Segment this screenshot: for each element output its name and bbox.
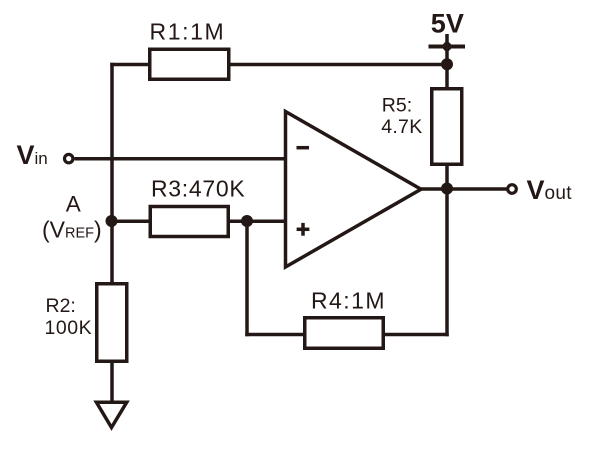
svg-text:R1:1M: R1:1M — [150, 19, 226, 45]
wire: left vertical from R1 corner down to R2 top — [110, 63, 114, 283]
resistor R2 — [97, 284, 127, 362]
wire: R2 bottom to ground — [110, 360, 114, 402]
junction dot: output node — [441, 183, 453, 195]
node A junction dot — [106, 215, 118, 227]
svg-text:4.7K: 4.7K — [381, 116, 422, 138]
svg-text:Vin: Vin — [17, 140, 48, 170]
resistor R1 — [150, 49, 229, 79]
wire: R5 bottom to output node — [445, 163, 449, 189]
svg-text:100K: 100K — [45, 317, 93, 339]
wire: feedback left vertical — [245, 221, 249, 336]
5V supply symbol: stem wire — [445, 34, 449, 88]
svg-text:Vout: Vout — [527, 175, 573, 205]
svg-text:R2:: R2: — [46, 295, 76, 317]
wire: node A to R3 — [112, 219, 151, 223]
resistor R3 — [150, 207, 228, 237]
terminal: Vout open circle — [508, 185, 517, 194]
5V supply symbol: bar — [429, 45, 466, 49]
wire: R1 left lead — [110, 63, 150, 67]
resistor R5 — [432, 89, 462, 165]
wire: output node to Vout terminal — [421, 187, 507, 191]
5V supply symbol: diamond — [441, 40, 454, 53]
svg-text:R4:1M: R4:1M — [311, 288, 386, 314]
resistor R4 — [305, 318, 384, 349]
op-amp non-inverting input symbol (plus) — [297, 228, 310, 232]
junction dot: R3 / feedback node — [241, 215, 253, 227]
op-amp inverting input symbol (minus) — [297, 146, 310, 150]
op-amp U1 — [286, 112, 422, 268]
wire: Vin to op-amp inverting input — [75, 157, 286, 161]
wire: output node down to feedback — [445, 189, 449, 336]
wire: feedback bottom right lead — [383, 333, 449, 337]
svg-text:R5:: R5: — [382, 95, 412, 117]
wire: R1 right lead to 5V junction — [228, 63, 447, 67]
wire: R3 to op-amp non-inverting input — [228, 219, 286, 223]
svg-text:R3:470K: R3:470K — [151, 176, 245, 202]
wire: feedback bottom left lead — [245, 333, 305, 337]
svg-text:A: A — [66, 192, 81, 217]
ground — [96, 402, 126, 427]
junction dot: 5V / R1 / R5 node — [441, 58, 453, 70]
terminal: Vin open circle — [65, 154, 73, 162]
svg-text:(VREF): (VREF) — [42, 217, 102, 243]
